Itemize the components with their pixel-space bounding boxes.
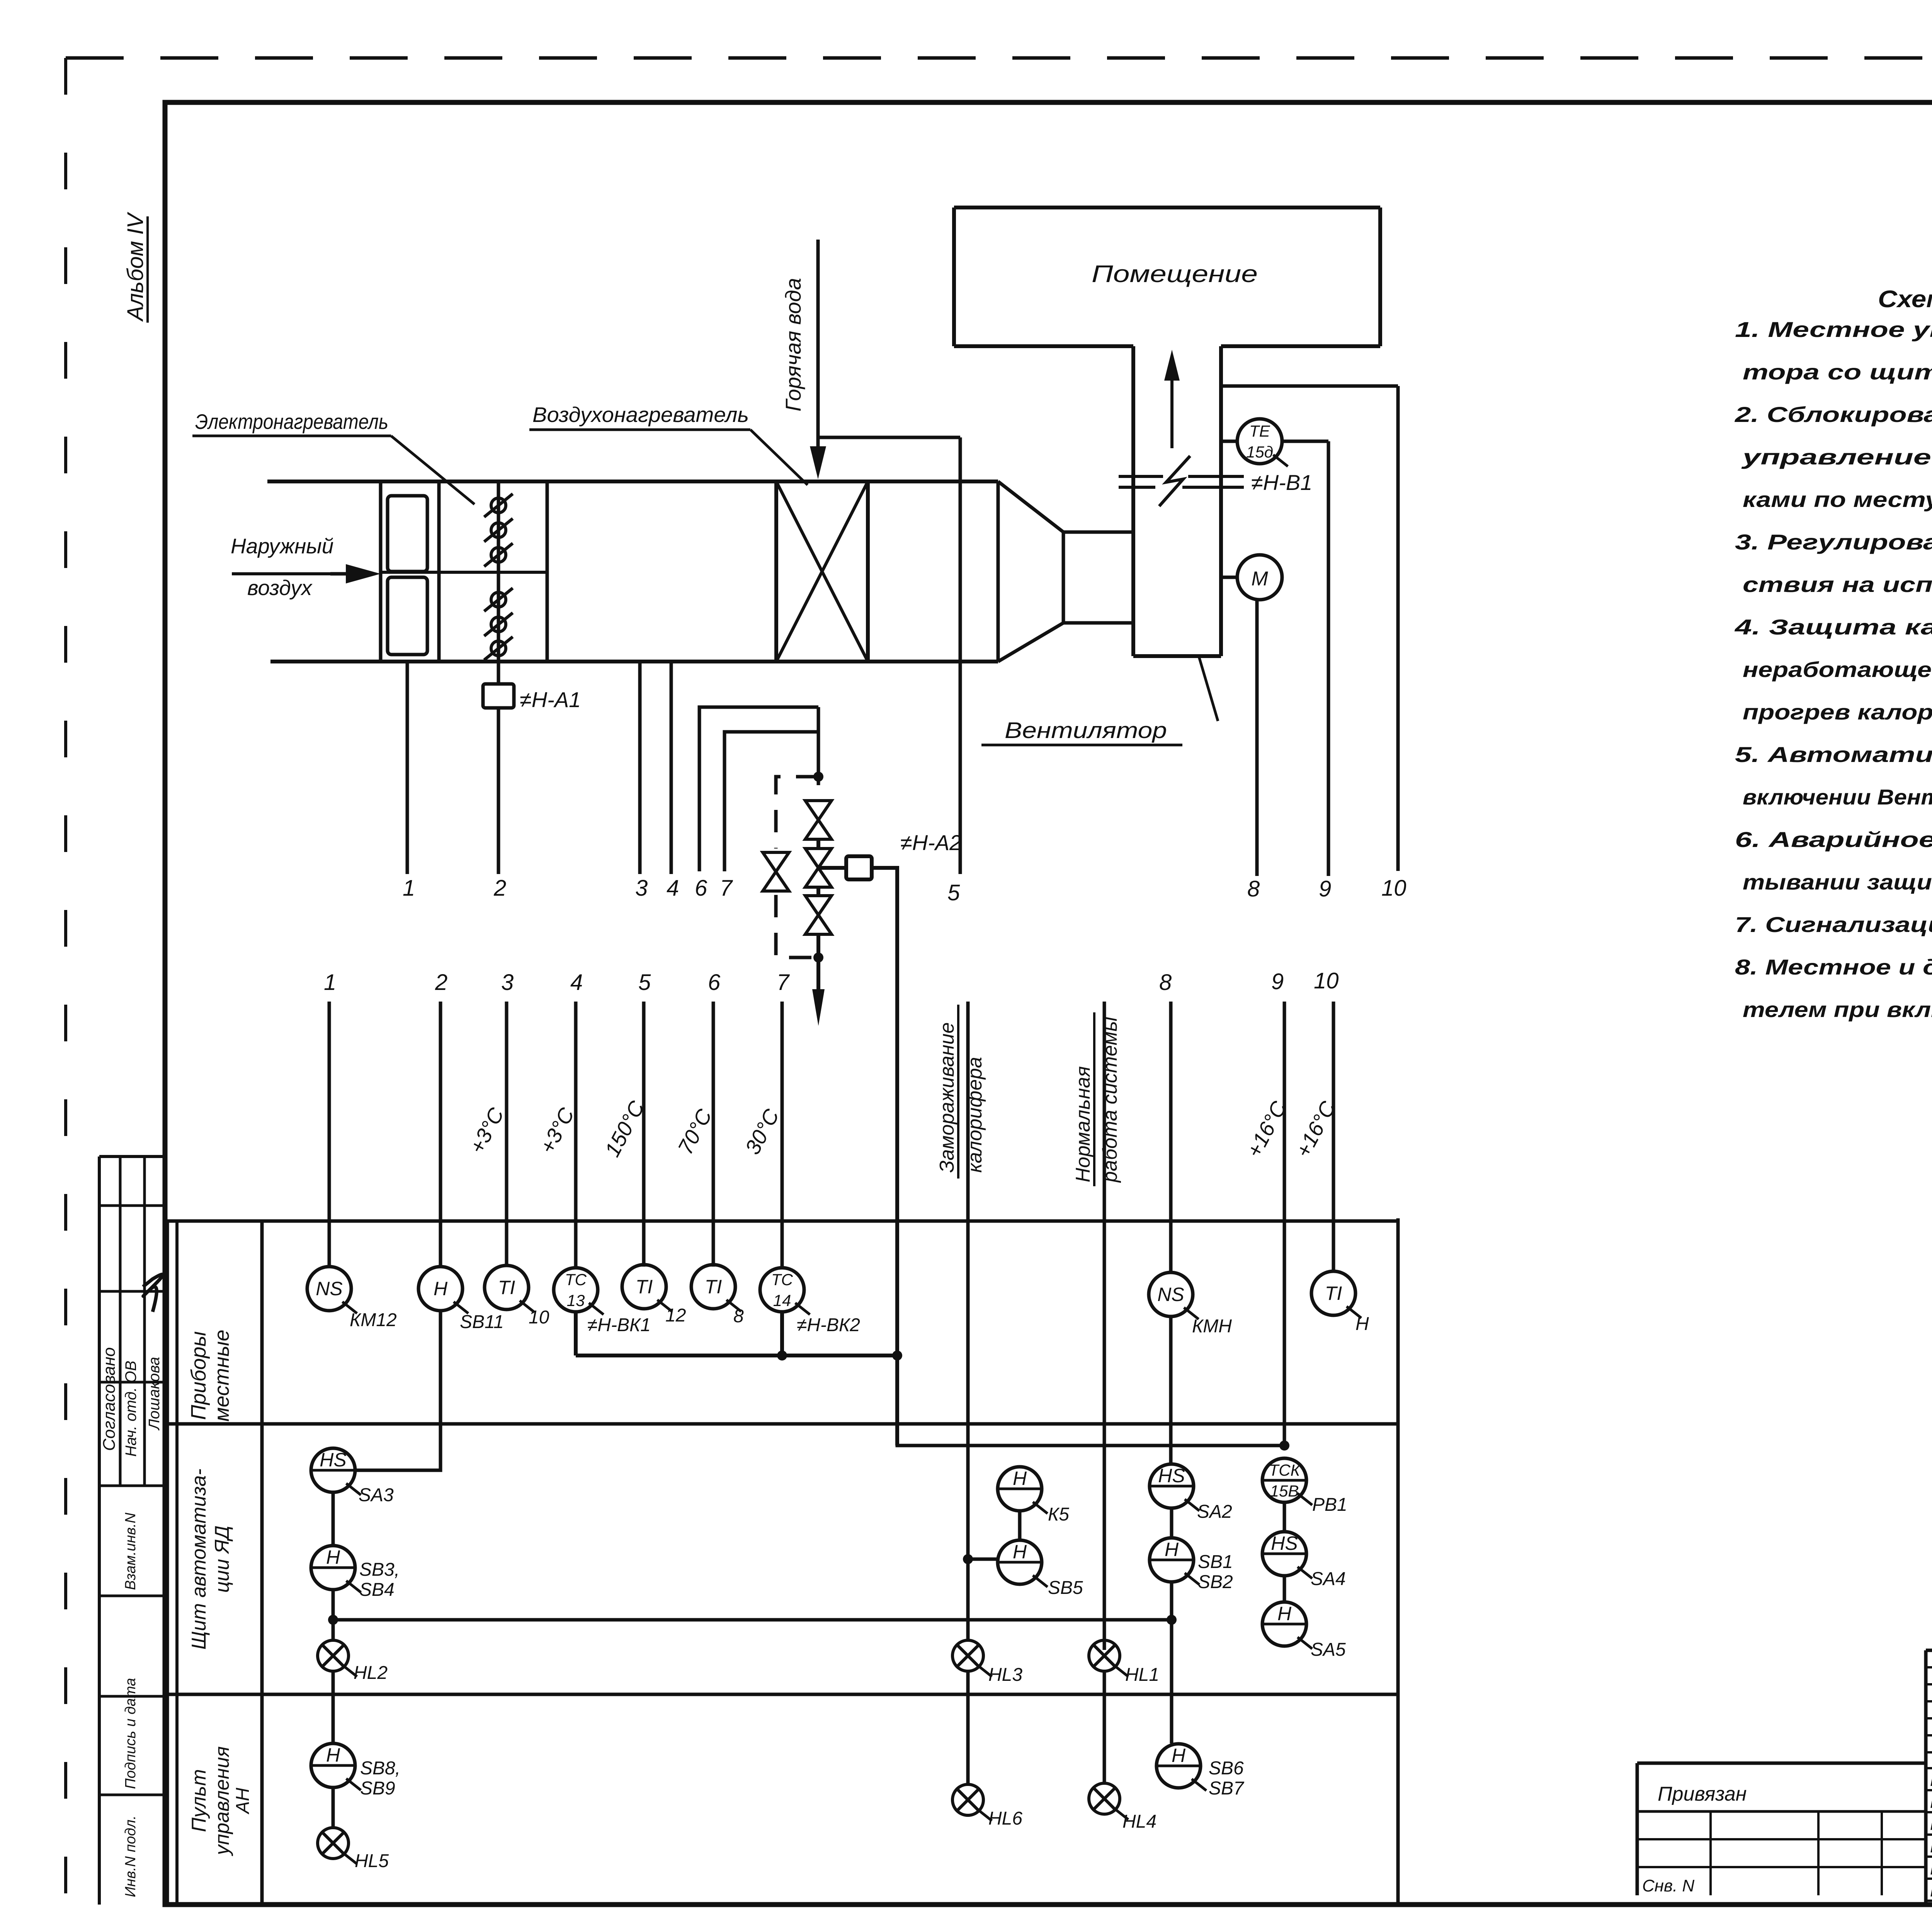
instrument H SB6 SB7 bbox=[1156, 1744, 1245, 1799]
duct top wall bbox=[267, 480, 998, 483]
svg-text:воздух: воздух bbox=[247, 576, 313, 600]
wire from room bottom to line 10 bbox=[1221, 384, 1398, 388]
instrument NS KM12 bbox=[307, 1267, 397, 1330]
duct end wall before contraction bbox=[997, 481, 1000, 662]
damper blade circle 4 bbox=[484, 588, 513, 611]
signature table bbox=[1926, 1650, 1932, 1905]
svg-text:9: 9 bbox=[1271, 969, 1284, 994]
svg-text:4: 4 bbox=[667, 876, 679, 901]
wire duct to TE bbox=[1221, 440, 1237, 443]
svg-text:ТI: ТI bbox=[498, 1277, 515, 1298]
svg-text:SВ2: SВ2 bbox=[1198, 1572, 1233, 1592]
wire line 7 (upper run, bends right) bbox=[724, 732, 818, 871]
svg-text:7. Сигнализация нормальной: 7. Сигнализация нормальной работы приточ… bbox=[1735, 912, 1932, 937]
svg-text:9: 9 bbox=[1319, 876, 1331, 901]
svg-text:НS: НS bbox=[1158, 1465, 1185, 1486]
valve V3 bbox=[805, 896, 832, 934]
fan casing bottom bbox=[1133, 654, 1221, 658]
hot water supply line bbox=[810, 240, 826, 479]
svg-text:тора со щита автоматизации: тора со щита автоматизации и дистанционн… bbox=[1743, 360, 1932, 384]
wire Замораживание line bbox=[966, 1002, 970, 1559]
svg-text:Н: Н bbox=[434, 1278, 448, 1299]
svg-text:НS: НS bbox=[1271, 1532, 1298, 1554]
svg-text:5. Автоматическое подключен: 5. Автоматическое подключение системы ре… bbox=[1735, 742, 1932, 767]
wire TC13 drop bbox=[574, 1312, 578, 1355]
svg-text:2: 2 bbox=[493, 876, 506, 901]
instrument H SB8 SB9 bbox=[311, 1743, 400, 1799]
wire line 8 (lower run) bbox=[1169, 1002, 1173, 1273]
instrument H K5 bbox=[998, 1467, 1069, 1525]
svg-text:Нормальная: Нормальная bbox=[1072, 1066, 1094, 1182]
svg-text:2. Сблокированное. с электро: 2. Сблокированное. с электродвигателем п… bbox=[1735, 402, 1932, 427]
sheet edge dashed left border bbox=[64, 58, 67, 1917]
junction SB5 tee bbox=[963, 1554, 973, 1564]
svg-text:Н: Н bbox=[1355, 1314, 1369, 1334]
svg-text:≠Н-В1: ≠Н-В1 bbox=[1251, 470, 1312, 495]
svg-text:10: 10 bbox=[1381, 876, 1406, 901]
duct bottom wall bbox=[270, 660, 998, 663]
svg-text:Воздухонагреватель: Воздухонагреватель bbox=[532, 403, 749, 427]
svg-text:SА2: SА2 bbox=[1197, 1502, 1232, 1522]
svg-text:6: 6 bbox=[695, 876, 707, 901]
lamp HL6 bbox=[952, 1784, 1022, 1829]
svg-text:1: 1 bbox=[403, 876, 415, 901]
svg-text:SВ11: SВ11 bbox=[460, 1312, 504, 1332]
left stamp band bbox=[99, 1156, 167, 1905]
wire PB1-SA4 bbox=[1283, 1502, 1286, 1532]
wire fan to M bbox=[1221, 576, 1237, 579]
wire line 10 (lower run) bbox=[1332, 1002, 1335, 1271]
actuator box H-A1 bbox=[483, 684, 514, 708]
svg-text:НS: НS bbox=[320, 1449, 346, 1471]
svg-text:SВ5: SВ5 bbox=[1048, 1578, 1083, 1598]
wire Замораживание to HL3 bbox=[966, 1559, 970, 1640]
svg-text:ТI: ТI bbox=[1325, 1282, 1342, 1304]
svg-text:ствия на исполнительный ме: ствия на исполнительный механизм клапана… bbox=[1743, 572, 1932, 597]
svg-text:Нач. отд.: Нач. отд. bbox=[1930, 1793, 1932, 1811]
stamp signature bbox=[143, 1274, 163, 1312]
svg-text:Приборы: Приборы bbox=[187, 1331, 210, 1420]
svg-text:10: 10 bbox=[529, 1307, 549, 1328]
svg-text:ции ЯД: ции ЯД bbox=[211, 1526, 233, 1593]
instrument TI H bbox=[1311, 1271, 1369, 1334]
instrument H SB5 bbox=[998, 1540, 1083, 1598]
instrument TC 13 bbox=[554, 1268, 651, 1335]
lamp HL2 bbox=[318, 1640, 388, 1683]
svg-text:Нач. отд. ОВ: Нач. отд. ОВ bbox=[122, 1361, 139, 1457]
wire HL3 to HL6 bbox=[966, 1671, 970, 1784]
wire H-A2 to panel bbox=[872, 868, 897, 1446]
fan casing left wall bbox=[1131, 346, 1135, 656]
fan inlet narrow box bbox=[1063, 532, 1133, 623]
svg-text:Снв. N: Снв. N bbox=[1642, 1876, 1694, 1895]
damper blade circle 3 bbox=[484, 543, 513, 566]
label Замораживание калорифера bbox=[936, 1005, 986, 1179]
svg-text:РВ1: РВ1 bbox=[1312, 1495, 1347, 1515]
svg-text:8. Местное и дистанционное: 8. Местное и дистанционное управление эл… bbox=[1735, 955, 1932, 979]
svg-text:≠Н-А2: ≠Н-А2 bbox=[900, 830, 961, 855]
wire line 3 (upper run) bbox=[638, 662, 642, 874]
fan casing right wall bbox=[1219, 346, 1223, 656]
label Наружный воздух with arrow bbox=[231, 534, 381, 600]
label Электронагреватель bbox=[192, 410, 474, 504]
svg-text:3: 3 bbox=[501, 970, 514, 995]
svg-text:13: 13 bbox=[567, 1291, 585, 1310]
svg-text:8: 8 bbox=[1159, 970, 1172, 995]
dashed bypass bottom leg bbox=[776, 895, 818, 957]
svg-text:ТI: ТI bbox=[705, 1276, 722, 1298]
instrument TE15d bbox=[1237, 419, 1288, 466]
electric heater cell left wall bbox=[379, 481, 383, 662]
lamp HL3 bbox=[952, 1640, 1022, 1685]
svg-text:работа системы: работа системы bbox=[1099, 1017, 1121, 1183]
hot water branch to line 5 bbox=[818, 436, 960, 439]
row label Щит автоматизации ЯД bbox=[188, 1469, 233, 1650]
wire SB11 to SA3 bbox=[355, 1311, 440, 1470]
damper blade circle 5 bbox=[484, 613, 513, 636]
svg-text:Замораживание: Замораживание bbox=[936, 1022, 958, 1173]
wire HL2 down to SB8 bbox=[332, 1671, 335, 1743]
instrument TI 10 bbox=[485, 1265, 549, 1328]
damper blade circle 2 bbox=[484, 519, 513, 542]
electric heater element lower bbox=[388, 577, 427, 655]
contraction top diagonal bbox=[998, 481, 1063, 532]
svg-text:Инженер: Инженер bbox=[1930, 1882, 1932, 1900]
drain arrow bbox=[812, 957, 825, 1026]
svg-text:14: 14 bbox=[773, 1291, 791, 1310]
wire line 2 (upper run) bbox=[497, 662, 500, 684]
wire line 4 (lower run) bbox=[574, 1002, 578, 1267]
svg-text:НL2: НL2 bbox=[354, 1663, 388, 1683]
link V2-V3 bbox=[816, 887, 820, 896]
svg-text:Вентилятор: Вентилятор bbox=[1005, 718, 1167, 743]
svg-text:4. Защита калорифера от з: 4. Защита калорифера от замораживания пр… bbox=[1735, 615, 1932, 639]
svg-text:SВ8,: SВ8, bbox=[360, 1758, 400, 1779]
damper cell right wall bbox=[546, 481, 549, 662]
wire line 5 (heat carrier tap) bbox=[959, 437, 962, 874]
svg-text:управление клапаном наружног: управление клапаном наружного воздуха и … bbox=[1741, 445, 1932, 469]
svg-text:SВ6: SВ6 bbox=[1209, 1758, 1244, 1779]
instrument NS KMH bbox=[1149, 1272, 1232, 1337]
svg-text:Пульт: Пульт bbox=[188, 1769, 210, 1832]
wire TC bus bbox=[576, 1354, 897, 1357]
svg-text:Помещение: Помещение bbox=[1092, 261, 1258, 287]
wire SB3-HL2 bbox=[332, 1590, 335, 1640]
svg-text:телем при включении прито: телем при включении приточного вентилято… bbox=[1743, 997, 1932, 1022]
instrument H SA5 bbox=[1262, 1602, 1346, 1660]
svg-text:ТС: ТС bbox=[771, 1270, 793, 1289]
wire SB5 tee left bbox=[968, 1558, 998, 1561]
svg-text:3. Регулирование температуры: 3. Регулирование температуры приточного … bbox=[1735, 530, 1932, 554]
svg-text:управления: управления bbox=[211, 1746, 233, 1856]
lamp HL4 bbox=[1089, 1783, 1156, 1832]
valve column junction bottom bbox=[813, 952, 823, 963]
svg-text:НL3: НL3 bbox=[988, 1665, 1022, 1685]
svg-text:АН: АН bbox=[233, 1787, 253, 1815]
valve V2 bbox=[805, 849, 832, 887]
svg-text:Привязан: Привязан bbox=[1658, 1783, 1747, 1805]
svg-text:тывании защиты от замора: тывании защиты от замораживания. bbox=[1743, 870, 1932, 894]
svg-text:местные: местные bbox=[210, 1330, 233, 1422]
label Воздухонагреватель bbox=[529, 403, 808, 485]
wire line 9 from TE bbox=[1327, 441, 1330, 876]
air arrow into room bbox=[1164, 350, 1180, 448]
svg-text:К5: К5 bbox=[1048, 1504, 1069, 1525]
wire SA3-SB3 bbox=[332, 1492, 335, 1546]
wire panel bus to SB1/SB2 drop bbox=[333, 1618, 1172, 1622]
svg-text:Н: Н bbox=[1165, 1539, 1179, 1560]
instrument HS SA4 bbox=[1262, 1532, 1346, 1589]
svg-text:≠Н-А1: ≠Н-А1 bbox=[520, 687, 581, 712]
wire Нормальная line bbox=[1103, 1002, 1106, 1650]
damper blade circle 6 bbox=[484, 637, 513, 660]
wire KMH-SA2 bbox=[1169, 1316, 1173, 1464]
row label Пульт управления АН bbox=[188, 1746, 253, 1856]
instrument H SB3 SB4 bbox=[311, 1546, 400, 1600]
duct mid split line bbox=[381, 571, 547, 574]
junction TC14/bus bbox=[777, 1350, 787, 1361]
wire line 6 (upper run, bends right) bbox=[699, 707, 818, 871]
svg-text:Лошакова: Лошакова bbox=[146, 1357, 163, 1431]
svg-text:включении Вентилятора.: включении Вентилятора. bbox=[1743, 785, 1932, 809]
svg-text:Рук. гр.: Рук. гр. bbox=[1930, 1860, 1932, 1878]
svg-text:КМ12: КМ12 bbox=[350, 1310, 397, 1330]
instrument HS SA2 bbox=[1150, 1464, 1232, 1522]
svg-text:НL1: НL1 bbox=[1125, 1665, 1159, 1685]
svg-text:ками по месту: ками по месту bbox=[1743, 487, 1932, 512]
junction bus/H-A2 wire bbox=[892, 1350, 902, 1361]
valve column junction top bbox=[813, 772, 823, 782]
svg-text:2: 2 bbox=[435, 970, 447, 995]
instrument HS SA3 bbox=[311, 1448, 394, 1505]
wire TE to line 9 bbox=[1282, 440, 1328, 443]
svg-text:ТI: ТI bbox=[636, 1276, 653, 1298]
wire line 10 (upper run) bbox=[1396, 386, 1400, 871]
motor M bbox=[1237, 555, 1282, 600]
svg-text:Согласовано: Согласовано bbox=[100, 1347, 119, 1451]
wire line 1 (lower run) bbox=[328, 1002, 331, 1267]
valve V1 bbox=[805, 801, 832, 839]
sheet edge dashed top border bbox=[66, 56, 1932, 60]
svg-text:КМН: КМН bbox=[1192, 1316, 1232, 1337]
svg-text:Гл. спец.: Гл. спец. bbox=[1930, 1838, 1932, 1856]
signature row ГИП Белоус bbox=[1930, 1769, 1932, 1789]
svg-text:SВ3,: SВ3, bbox=[359, 1560, 400, 1580]
svg-text:1: 1 bbox=[324, 970, 336, 995]
lamp HL5 bbox=[318, 1828, 389, 1871]
signature row Рук. гр. Титов bbox=[1930, 1857, 1932, 1878]
svg-text:10: 10 bbox=[1314, 968, 1339, 993]
air heater (воздухонагреватель) box with X bbox=[776, 481, 868, 662]
svg-text:7: 7 bbox=[777, 970, 790, 995]
wire line 7 (lower run) bbox=[781, 1002, 784, 1267]
svg-text:≠Н-ВК2: ≠Н-ВК2 bbox=[797, 1315, 860, 1335]
lamp HL1 bbox=[1089, 1640, 1159, 1685]
bypass valve bbox=[763, 852, 789, 891]
wire SB1 down to SB6 bbox=[1170, 1582, 1173, 1743]
svg-text:3: 3 bbox=[635, 876, 648, 901]
signature row Гл. спец. Кузнецов bbox=[1930, 1835, 1932, 1856]
instrument TCK 15B PB1 bbox=[1262, 1458, 1347, 1515]
svg-text:М: М bbox=[1251, 568, 1268, 590]
svg-text:НL6: НL6 bbox=[988, 1808, 1022, 1829]
contraction bottom diagonal bbox=[998, 623, 1063, 662]
svg-text:SА5: SА5 bbox=[1311, 1639, 1346, 1660]
svg-text:Н: Н bbox=[1172, 1745, 1186, 1766]
svg-text:ТСК: ТСК bbox=[1269, 1461, 1301, 1479]
svg-text:Н: Н bbox=[1013, 1541, 1027, 1563]
svg-text:Подпись и дата: Подпись и дата bbox=[122, 1678, 139, 1789]
row label Приборы местные bbox=[187, 1330, 233, 1422]
svg-text:4: 4 bbox=[570, 970, 583, 995]
signature row Инженер Калмыков bbox=[1930, 1879, 1932, 1900]
svg-text:Взам.инв.N: Взам.инв.N bbox=[122, 1512, 139, 1590]
svg-text:Альбом IV: Альбом IV bbox=[123, 211, 148, 322]
svg-text:Н: Н bbox=[1277, 1603, 1292, 1624]
signature row Н.контр. Кузнецов bbox=[1930, 1813, 1932, 1833]
wire SA4-SA5 bbox=[1283, 1576, 1286, 1602]
svg-text:7: 7 bbox=[720, 876, 733, 901]
svg-text:8: 8 bbox=[733, 1306, 744, 1327]
svg-text:ГИП: ГИП bbox=[1930, 1771, 1932, 1789]
label Нормальная работа системы bbox=[1072, 1012, 1121, 1186]
wire K5-SB5 bbox=[1018, 1511, 1022, 1540]
instrument TI 12 bbox=[622, 1265, 686, 1326]
svg-text:SВ4: SВ4 bbox=[359, 1580, 395, 1600]
wire SB8-HL5 bbox=[332, 1787, 335, 1828]
room box Помещение bbox=[954, 207, 1380, 346]
svg-text:Схемой предусматривается:: Схемой предусматривается: bbox=[1878, 286, 1932, 313]
svg-text:5: 5 bbox=[947, 880, 960, 905]
instrument H SB1 SB2 bbox=[1150, 1538, 1233, 1592]
svg-text:SА3: SА3 bbox=[359, 1485, 394, 1505]
heat pipe down to valves bbox=[817, 707, 820, 785]
svg-text:прогрев калорифера перед: прогрев калорифера перед включением вент… bbox=[1743, 700, 1932, 724]
link V1-V2 bbox=[816, 839, 820, 849]
table frame bbox=[167, 1218, 1398, 1905]
wire SA2-SB1 bbox=[1170, 1508, 1173, 1538]
wire H-A2 line turn to PB1 bbox=[897, 1355, 1284, 1446]
signature row Нач. отд. Шунский bbox=[1930, 1791, 1932, 1811]
svg-text:Н: Н bbox=[326, 1546, 340, 1568]
svg-text:Щит автоматиза-: Щит автоматиза- bbox=[188, 1469, 210, 1650]
svg-text:Инв.N подл.: Инв.N подл. bbox=[122, 1815, 139, 1897]
instrument H SB11 bbox=[418, 1267, 504, 1332]
svg-text:≠Н-ВК1: ≠Н-ВК1 bbox=[587, 1315, 651, 1335]
instrument TI 8 bbox=[691, 1265, 744, 1327]
svg-text:Горячая вода: Горячая вода bbox=[781, 278, 805, 412]
svg-text:NS: NS bbox=[1157, 1284, 1184, 1305]
instrument TC 14 bbox=[760, 1268, 860, 1335]
wire TC14 drop bbox=[780, 1312, 784, 1355]
svg-text:ТС: ТС bbox=[565, 1270, 587, 1289]
electric heater cell right wall bbox=[437, 481, 441, 662]
svg-text:SВ1: SВ1 bbox=[1198, 1552, 1233, 1572]
svg-text:НL5: НL5 bbox=[355, 1851, 389, 1871]
svg-text:15д: 15д bbox=[1246, 443, 1273, 461]
svg-text:15В: 15В bbox=[1270, 1482, 1299, 1500]
wire line 3 (lower run) bbox=[505, 1002, 509, 1267]
svg-text:Н: Н bbox=[1013, 1468, 1027, 1489]
wire line 2 (lower run) bbox=[439, 1002, 442, 1267]
wire line 8 from motor bbox=[1255, 600, 1259, 876]
svg-text:5: 5 bbox=[638, 970, 651, 995]
wire line 1 (upper run) bbox=[406, 662, 409, 874]
wire line 9 (lower run) bbox=[1283, 1002, 1286, 1446]
privyazan table bbox=[1637, 1763, 1926, 1895]
junction line9 / wire bbox=[1279, 1440, 1289, 1451]
duct break symbol with H-B1 tag bbox=[1119, 456, 1244, 506]
svg-text:8: 8 bbox=[1247, 876, 1260, 901]
svg-text:ТЕ: ТЕ bbox=[1249, 422, 1270, 440]
svg-text:6: 6 bbox=[708, 970, 721, 995]
junction bus right bbox=[1167, 1615, 1177, 1625]
svg-text:SВ9: SВ9 bbox=[360, 1778, 395, 1799]
wire line 5 (lower run) bbox=[642, 1002, 646, 1267]
svg-text:НL4: НL4 bbox=[1122, 1811, 1156, 1832]
link V3-bottom bbox=[816, 934, 820, 957]
dashed bypass top leg bbox=[776, 777, 818, 849]
damper blade line bbox=[497, 481, 500, 662]
wire HL1 to HL4 bbox=[1103, 1671, 1106, 1783]
svg-text:SВ7: SВ7 bbox=[1209, 1778, 1245, 1799]
svg-text:Н.контр.: Н.контр. bbox=[1930, 1815, 1932, 1833]
electric heater element upper bbox=[388, 496, 427, 571]
svg-text:Электронагреватель: Электронагреватель bbox=[195, 410, 388, 434]
svg-text:неработающей системе и авт: неработающей системе и автоматический 3ˣ… bbox=[1743, 657, 1932, 682]
junction SB-bus bbox=[328, 1615, 338, 1625]
svg-text:12: 12 bbox=[665, 1305, 686, 1326]
actuator box H-A2 bbox=[818, 856, 872, 879]
svg-text:1. Местное управление электр: 1. Местное управление электродвигателем … bbox=[1735, 317, 1932, 342]
svg-text:Н: Н bbox=[326, 1744, 340, 1766]
damper blade circle 1 bbox=[484, 494, 513, 517]
svg-text:6. Аварийное отключение п: 6. Аварийное отключение приточного венти… bbox=[1735, 827, 1932, 852]
svg-text:NS: NS bbox=[316, 1278, 342, 1299]
svg-text:SА4: SА4 bbox=[1311, 1569, 1346, 1589]
wire line 6 (lower run) bbox=[712, 1002, 715, 1267]
wire line 4 (upper run) bbox=[670, 662, 673, 874]
svg-text:Наружный: Наружный bbox=[231, 534, 333, 558]
